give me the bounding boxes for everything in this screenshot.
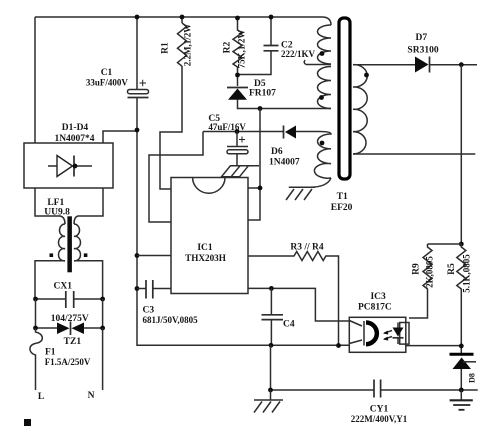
svg-text:CY1: CY1: [370, 405, 389, 415]
svg-text:2.2M,1/2W: 2.2M,1/2W: [183, 24, 193, 67]
svg-text:681J/50V,0805: 681J/50V,0805: [143, 315, 199, 325]
svg-text:D5: D5: [254, 79, 266, 89]
svg-text:C1: C1: [101, 68, 113, 78]
svg-text:R5: R5: [447, 263, 457, 275]
svg-text:IC1: IC1: [197, 243, 213, 253]
svg-text:222M/400V,Y1: 222M/400V,Y1: [351, 414, 408, 424]
svg-text:T1: T1: [337, 192, 348, 202]
svg-text:LF1: LF1: [47, 198, 64, 208]
svg-text:47uF/16V: 47uF/16V: [208, 122, 246, 132]
svg-text:D7: D7: [415, 33, 427, 43]
svg-text:PC817C: PC817C: [358, 303, 392, 313]
svg-text:N: N: [88, 391, 95, 401]
svg-text:1N4007: 1N4007: [269, 158, 300, 168]
svg-text:EF20: EF20: [331, 203, 353, 213]
svg-text:2K,0805: 2K,0805: [425, 256, 435, 288]
svg-text:THX203H: THX203H: [185, 253, 226, 263]
svg-text:222/1KV: 222/1KV: [281, 49, 316, 59]
svg-text:R1: R1: [161, 42, 171, 54]
svg-text:D1-D4: D1-D4: [62, 123, 89, 133]
svg-text:CX1: CX1: [54, 282, 73, 292]
svg-text:C3: C3: [143, 306, 155, 316]
svg-text:R9: R9: [412, 263, 422, 275]
svg-text:33uF/400V: 33uF/400V: [86, 78, 129, 88]
svg-text:L: L: [38, 392, 44, 402]
svg-text:UU9.8: UU9.8: [44, 208, 70, 218]
svg-text:D8: D8: [468, 373, 477, 383]
svg-text:F1: F1: [45, 348, 56, 358]
svg-text:SR3100: SR3100: [407, 46, 438, 56]
svg-text:75K,1/2W: 75K,1/2W: [237, 30, 247, 69]
svg-text:IC3: IC3: [370, 292, 386, 302]
svg-text:TZ1: TZ1: [64, 337, 82, 347]
svg-text:R2: R2: [223, 41, 233, 53]
svg-text:R3 // R4: R3 // R4: [290, 243, 324, 253]
svg-text:5.1K,0805: 5.1K,0805: [462, 254, 472, 293]
svg-text:F1.5A/250V: F1.5A/250V: [45, 357, 91, 367]
svg-text:D6: D6: [271, 147, 283, 157]
svg-text:FR107: FR107: [249, 89, 276, 99]
svg-text:1N4007*4: 1N4007*4: [54, 134, 94, 144]
svg-text:C4: C4: [283, 319, 295, 329]
